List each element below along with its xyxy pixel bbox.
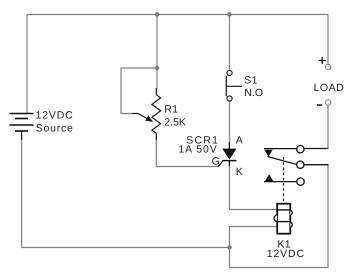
battery B1 12VDC Source bbox=[10, 114, 34, 141]
label - minus bbox=[317, 104, 322, 106]
svg-text:S1: S1 bbox=[244, 75, 258, 87]
node junction dot top rail / S1 branch bbox=[227, 12, 231, 16]
SCR SCR1 thyristor bbox=[218, 142, 236, 167]
label 2.5K bbox=[164, 117, 186, 129]
svg-text:LOAD: LOAD bbox=[314, 82, 345, 94]
svg-text:N.O: N.O bbox=[244, 87, 263, 99]
wire relay coil bottom to bottom bus junction bbox=[230, 227, 278, 268]
label K cathode bbox=[236, 166, 243, 178]
wire LOAD plus from top rail bbox=[327, 15, 329, 65]
load terminal plus circle bbox=[326, 64, 331, 69]
svg-text:12VDC: 12VDC bbox=[36, 110, 74, 122]
relay contacts K1 SPDT bbox=[264, 146, 329, 186]
label 12VDC (battery) bbox=[36, 110, 74, 122]
node junction dot bottom bus bbox=[227, 245, 231, 249]
potentiometer R1 2.5K bbox=[132, 88, 161, 140]
label S1 bbox=[244, 75, 258, 87]
wire top rail bbox=[27, 14, 328, 16]
load terminal minus circle bbox=[326, 100, 331, 105]
wire SCR cathode to relay coil top bbox=[230, 166, 278, 210]
node junction dot wiper tap bbox=[155, 66, 159, 70]
svg-text:1A 50V: 1A 50V bbox=[178, 144, 217, 156]
wire R1 branch from top rail bbox=[156, 15, 158, 90]
svg-text:12VDC: 12VDC bbox=[267, 248, 305, 260]
svg-text:G: G bbox=[212, 155, 221, 167]
label LOAD bbox=[314, 82, 345, 94]
switch S1 normally open pushbutton bbox=[226, 70, 242, 101]
wire LOAD minus to relay contact NC bbox=[327, 106, 329, 149]
label R1 bbox=[164, 104, 178, 116]
wire S1 to SCR anode bbox=[229, 102, 231, 144]
label + plus bbox=[319, 57, 326, 64]
wire bottom rail bbox=[22, 247, 230, 249]
svg-text:K: K bbox=[236, 166, 243, 178]
wire battery negative down to bottom rail bbox=[21, 140, 23, 248]
wire S1 branch from top rail bbox=[229, 15, 231, 71]
label K1 bbox=[277, 238, 291, 250]
label Source bbox=[36, 123, 74, 135]
svg-text:2.5K: 2.5K bbox=[164, 117, 186, 129]
wire left rail from top rail to battery positive bbox=[26, 15, 28, 114]
mechanical link dashed relay actuator bbox=[283, 157, 285, 204]
svg-text:R1: R1 bbox=[164, 104, 178, 116]
wire wiper loop bbox=[121, 68, 157, 114]
node junction dot top rail / R1 branch bbox=[155, 12, 159, 16]
label 1A 50V bbox=[178, 144, 217, 156]
svg-text:A: A bbox=[236, 135, 243, 147]
label G gate bbox=[212, 155, 221, 167]
wire R1 bottom to SCR gate bbox=[156, 140, 218, 167]
svg-text:Source: Source bbox=[36, 123, 74, 135]
wire bottom bus to relay contact common bbox=[230, 165, 329, 268]
label A anode bbox=[236, 135, 243, 147]
relay coil K1 bbox=[274, 204, 292, 234]
label SCR1 bbox=[186, 134, 219, 146]
label 12VDC (relay coil) bbox=[267, 248, 305, 260]
label N.O bbox=[244, 87, 263, 99]
